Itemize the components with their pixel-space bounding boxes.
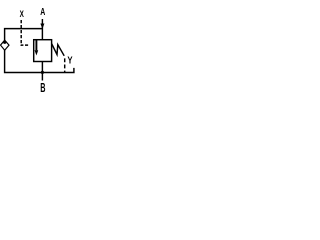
svg-text:Y: Y [67,55,72,66]
svg-text:X: X [20,9,25,19]
svg-text:B: B [40,81,46,96]
svg-text:A: A [40,6,46,18]
